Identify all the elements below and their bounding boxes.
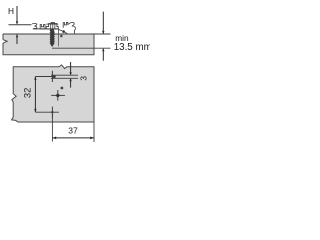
asterisk marker (side view) (62, 30, 65, 33)
side view: panel top surface line extended to dimension (3, 33, 111, 35)
plate base sloped face (58, 29, 67, 33)
side view: panel outline (3, 34, 94, 55)
svg-text:H: H (8, 6, 14, 16)
plate cam cup profile (40, 24, 45, 29)
min 13.5 dimension upper arrow (102, 12, 104, 34)
plate base line (33, 28, 59, 30)
center cross with dot (51, 94, 65, 96)
32 dimension vertical line with arrows (34, 77, 36, 113)
bottom hole centerline (35, 111, 59, 113)
3 dimension lower arrow (70, 79, 72, 88)
top hole cross tick (51, 71, 53, 82)
latch S-curve profile (68, 22, 75, 33)
top hole centerline (35, 76, 52, 78)
bottom hole cross tick (51, 107, 53, 118)
screw tip depth line (52, 47, 111, 49)
wood screw shank with threads (50, 29, 55, 47)
screw head top bar (46, 23, 58, 25)
plan view: cabinet panel (12, 65, 94, 122)
svg-text:32: 32 (21, 88, 32, 98)
37 dimension line with arrows (52, 137, 94, 139)
pilot hole edge line (57, 29, 59, 46)
plate left hook profile (32, 23, 37, 28)
svg-text:13.5 mm: 13.5 mm (114, 42, 150, 53)
screw head with phillips cross (46, 24, 58, 29)
H dimension upper arrow line (16, 6, 18, 24)
top hole screw dot (53, 75, 56, 78)
svg-text:3: 3 (79, 76, 89, 81)
slot elongated hole lines (51, 74, 78, 76)
side view: cabinet panel (cross-section) (3, 34, 94, 55)
37 dimension extension lines (51, 114, 53, 141)
latch cup profile (63, 22, 68, 27)
screw head slot lines (51, 24, 55, 29)
dowel anchor block (60, 35, 62, 37)
min 13.5 dimension lower arrow (102, 49, 104, 61)
H reference line (mounting plane) (9, 24, 32, 26)
H dimension lower arrow (inside panel pointing up) (16, 35, 18, 44)
3 dimension upper arrow (70, 62, 72, 75)
asterisk marker (plan view) (61, 87, 64, 90)
screw head nub (51, 22, 54, 23)
svg-text:37: 37 (68, 125, 78, 135)
